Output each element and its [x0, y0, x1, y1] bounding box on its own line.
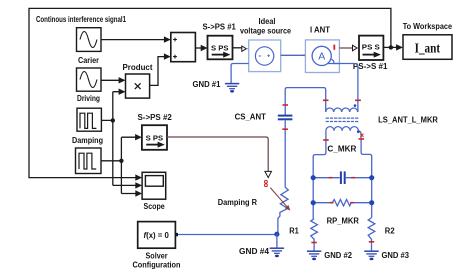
ground #2: [307, 251, 321, 260]
wire: node to ground #4: [276, 234, 278, 248]
capacitor CS_ANT: [278, 116, 293, 120]
red port tick on CS_ANT bottom lead: [282, 128, 288, 130]
wire: Driving output with junction: [101, 89, 142, 189]
svg-text:Product: Product: [123, 63, 153, 72]
wire: ammeter PS output to PS-S with port triangle: [339, 45, 357, 50]
resistor left rail (to GND #2): [311, 219, 318, 251]
svg-text:C_MKR: C_MKR: [327, 144, 356, 153]
wire: PS-S output to To Workspace with junction: [383, 44, 403, 50]
primary winding: [326, 108, 358, 112]
core: [326, 117, 359, 119]
svg-text:I ANT: I ANT: [310, 25, 330, 34]
svg-text:GND #3: GND #3: [382, 251, 410, 260]
svg-text:Solver: Solver: [146, 252, 168, 261]
variable resistor Damping R: [270, 187, 290, 234]
S-PS converter block #2: [142, 125, 167, 150]
resistor R2: [368, 218, 375, 251]
node: R1 bottom junction: [274, 232, 279, 237]
svg-text:GND #4: GND #4: [239, 247, 270, 256]
sum block: [171, 33, 196, 62]
ground #1: [225, 84, 239, 93]
ground #3: [364, 251, 378, 260]
wire: solver configuration to circuit node: [178, 234, 277, 236]
svg-text:GND #2: GND #2: [324, 251, 352, 260]
svg-text:Damping R: Damping R: [218, 198, 257, 207]
svg-text:RP_MKR: RP_MKR: [327, 216, 360, 225]
ground #4: [270, 248, 284, 257]
junction dots RP_MKR row: [311, 200, 316, 205]
svg-text:R2: R2: [385, 226, 395, 235]
wire: Carier to Product input 1: [101, 79, 120, 81]
wire: ammeter to transformer top right: [328, 64, 358, 113]
svg-text:Configuration: Configuration: [133, 261, 181, 270]
svg-text:Driving: Driving: [77, 94, 100, 103]
wire: S-PS #1 to voltage source with PS port triangle: [233, 46, 249, 51]
PS-S converter block #1: [359, 36, 383, 60]
product block: [126, 74, 150, 98]
svg-text:Continous interference signal1: Continous interference signal1: [36, 15, 126, 24]
To Workspace block: [403, 35, 452, 60]
red cross mark secondary right: [360, 134, 363, 137]
svg-text:voltage source: voltage source: [240, 27, 291, 36]
svg-text:PS S: PS S: [362, 45, 380, 52]
wire: CS_ANT bottom lead to Damping R: [284, 120, 286, 187]
sine source block Carier: [77, 68, 102, 91]
wire: voltage source to ammeter: [281, 54, 312, 56]
svg-text:CS_ANT: CS_ANT: [235, 112, 266, 121]
red port tick secondary right: [359, 138, 365, 140]
svg-text:R1: R1: [289, 226, 299, 235]
wire: S-PS #2 to Damping R control with PS port triangle: [167, 137, 272, 187]
svg-text:f(x) = 0: f(x) = 0: [144, 231, 170, 240]
polarity dot top right winding: [354, 104, 357, 107]
ideal voltage source block: [249, 40, 281, 72]
wire: I_ant feedback loop (top and left): [29, 8, 391, 180]
secondary winding: [326, 127, 358, 131]
wire: sum output: [195, 47, 202, 49]
pulse source block Damping: [76, 148, 102, 174]
svg-text:Scope: Scope: [144, 202, 166, 211]
ammeter block I ANT: [305, 40, 339, 73]
svg-text:A: A: [318, 51, 325, 63]
wire: left rail: [312, 178, 314, 219]
red port tick on transformer top right lead: [355, 99, 361, 101]
svg-text:Carier: Carier: [78, 56, 99, 65]
red port tick on CS_ANT top lead: [283, 104, 289, 106]
wire: top node from CS_ANT to transformer top left: [285, 88, 326, 115]
resistor RP_MKR with leads: [313, 200, 372, 206]
scope block: [142, 172, 166, 199]
svg-text:S PS: S PS: [146, 135, 164, 142]
wire: Product output to sum input 2: [150, 57, 166, 86]
sine source block (interference): [77, 28, 102, 52]
svg-text:S->PS #1: S->PS #1: [203, 22, 237, 31]
transformer LS_ANT_L_MKR: [326, 108, 359, 131]
svg-text:I_ant: I_ant: [415, 41, 441, 56]
red port tick secondary left: [323, 139, 329, 141]
svg-text:To Workspace: To Workspace: [403, 22, 453, 31]
wire: secondary right lead down to right rail: [358, 131, 371, 178]
S-PS converter block #1: [208, 36, 233, 60]
wire: Damping output with junction to S-PS #2 and Scope: [101, 134, 142, 197]
red port tick on transformer top left lead: [323, 99, 329, 101]
wire: interference to sum: [101, 39, 165, 41]
wire: voltage source to ground #1: [231, 64, 249, 84]
wire: right rail: [371, 178, 373, 218]
svg-text:LS_ANT_L_MKR: LS_ANT_L_MKR: [378, 115, 438, 124]
svg-text:S->PS #2: S->PS #2: [138, 113, 173, 122]
junction dots C_MKR row: [311, 175, 316, 180]
capacitor C_MKR with leads: [313, 171, 372, 184]
svg-text:Ideal: Ideal: [259, 17, 276, 26]
svg-text:S PS: S PS: [211, 46, 229, 53]
solver configuration block: [138, 222, 178, 249]
svg-text:GND #1: GND #1: [193, 80, 221, 89]
wire: secondary left lead down to left rail: [313, 131, 326, 178]
polarity dot secondary right: [357, 130, 360, 133]
svg-text:Damping: Damping: [72, 136, 103, 145]
pulse source block Driving: [77, 108, 101, 131]
